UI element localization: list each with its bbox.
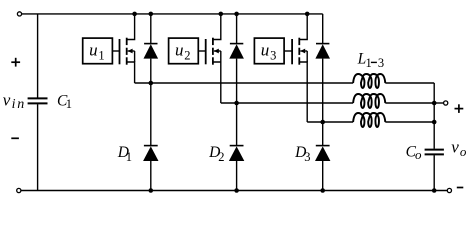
svg-text:v: v [3, 91, 11, 110]
junction Q2 drain / top rail [219, 12, 224, 17]
diode D2 lower lead [236, 161, 238, 191]
label L1-3 dash [371, 61, 377, 63]
wire L2 to output bus [385, 102, 434, 104]
wire output bus vertical [433, 83, 435, 149]
capacitor C1 [28, 98, 48, 103]
diode D2 triangle [229, 146, 244, 161]
junction phase3 node [320, 120, 325, 125]
inductor L1 [353, 74, 385, 88]
junction D2 / bottom rail [234, 188, 239, 193]
svg-text:u: u [89, 40, 98, 59]
diode D2a cathode bar [230, 43, 243, 45]
transistor Q2 channel [212, 38, 214, 65]
output terminal minus [447, 188, 451, 192]
junction D3 / bottom rail [320, 188, 325, 193]
wire D3 upper lead [322, 122, 324, 146]
diode D1 triangle [143, 146, 158, 161]
junction Co / bottom rail [432, 188, 437, 193]
label plus output [455, 104, 464, 113]
wire gate u3 [284, 50, 292, 52]
wire phase3 node horizontal [307, 121, 353, 123]
transistor Q2 gate plate [205, 39, 207, 64]
gate driver U2 [169, 38, 199, 64]
diode D3a cathode bar [316, 43, 329, 45]
wire input branch vertical upper [37, 14, 39, 98]
transistor Q3 source lead [299, 62, 307, 122]
input terminal top-left [17, 12, 21, 16]
transistor Q2 drain lead [213, 14, 221, 40]
wire phase1 node horizontal [135, 82, 354, 84]
svg-text:u: u [261, 40, 270, 59]
junction bus L2 [432, 101, 437, 106]
diode D3a lower lead [322, 59, 324, 122]
junction Q3 drain / top rail [305, 12, 310, 17]
label minus output [457, 187, 464, 189]
inductor L3 [353, 113, 385, 127]
svg-text:o: o [415, 147, 422, 162]
diode D3 cathode bar [316, 145, 330, 147]
transistor Q1 bulk tie [134, 51, 136, 62]
diode D1a lower lead [150, 59, 152, 83]
transistor Q3 gate plate [291, 39, 293, 64]
transistor Q1 drain lead [127, 14, 135, 40]
svg-text:u: u [175, 40, 184, 59]
wire output terminal stub [434, 102, 444, 104]
diode D3 triangle [315, 146, 330, 161]
junction bus L3 [432, 120, 437, 125]
diode D2a upper lead [236, 14, 238, 44]
svg-text:2: 2 [218, 150, 224, 164]
junction D1a / top rail [149, 12, 154, 17]
diode D2 cathode bar [230, 145, 244, 147]
junction phase2 node [234, 101, 239, 106]
svg-text:3: 3 [270, 49, 276, 63]
diode D2a lower lead [236, 59, 238, 103]
gate driver U1 [83, 38, 113, 64]
wire top rail [22, 13, 323, 15]
svg-text:3: 3 [378, 56, 384, 70]
wire L1 to output bus [385, 82, 434, 84]
wire Co lower lead [433, 155, 435, 190]
wire gate u1 [112, 50, 119, 52]
transistor Q2 source lead [213, 62, 221, 103]
junction Q1 drain / top rail [132, 12, 137, 17]
diode D2a triangle [229, 44, 244, 58]
transistor Q3 bulk arrow [300, 49, 305, 54]
wire D1 upper lead [150, 83, 152, 146]
diode D1 cathode bar [144, 145, 158, 147]
transistor Q1 source lead [127, 62, 135, 83]
diode D3 lower lead [322, 161, 324, 191]
wire input branch vertical lower [37, 104, 39, 190]
output terminal plus [444, 101, 448, 105]
svg-text:1: 1 [98, 49, 104, 63]
wire gate u2 [198, 50, 205, 52]
diode D1a triangle [144, 44, 159, 58]
svg-text:3: 3 [304, 150, 310, 164]
svg-text:2: 2 [184, 49, 190, 63]
wire bottom rail [21, 190, 448, 192]
transistor Q3 bulk tie [306, 51, 308, 62]
gate driver U3 [254, 38, 284, 64]
transistor Q1 bulk arrow [128, 49, 133, 54]
svg-text:in: in [12, 97, 27, 112]
capacitor Co [425, 150, 444, 155]
svg-text:1: 1 [126, 150, 132, 164]
junction phase1 node [149, 81, 154, 86]
diode D1a upper lead [150, 14, 152, 44]
label minus input [11, 137, 19, 139]
transistor Q3 drain lead [299, 14, 307, 40]
diode D1a cathode bar [144, 43, 157, 45]
input terminal bottom-left [17, 188, 21, 192]
wire D2 upper lead [236, 103, 238, 146]
svg-text:1: 1 [66, 97, 72, 111]
svg-text:1: 1 [366, 56, 372, 70]
diode D1 lower lead [150, 161, 152, 191]
transistor Q1 channel [126, 38, 128, 65]
label plus input [11, 58, 20, 67]
junction D1 / bottom rail [149, 188, 154, 193]
inductor L2 [353, 94, 385, 108]
transistor Q2 bulk arrow [214, 49, 219, 54]
transistor Q2 bulk tie [220, 51, 222, 62]
svg-text:o: o [460, 144, 467, 159]
transistor Q1 gate plate [119, 39, 121, 64]
diode D3a triangle [315, 44, 330, 58]
svg-text:v: v [451, 137, 459, 156]
transistor Q3 channel [298, 38, 300, 65]
junction D2a / top rail [234, 12, 239, 17]
wire L3 to output bus [385, 121, 434, 123]
diode D3a upper lead [322, 14, 324, 44]
wire phase2 node horizontal [221, 102, 353, 104]
